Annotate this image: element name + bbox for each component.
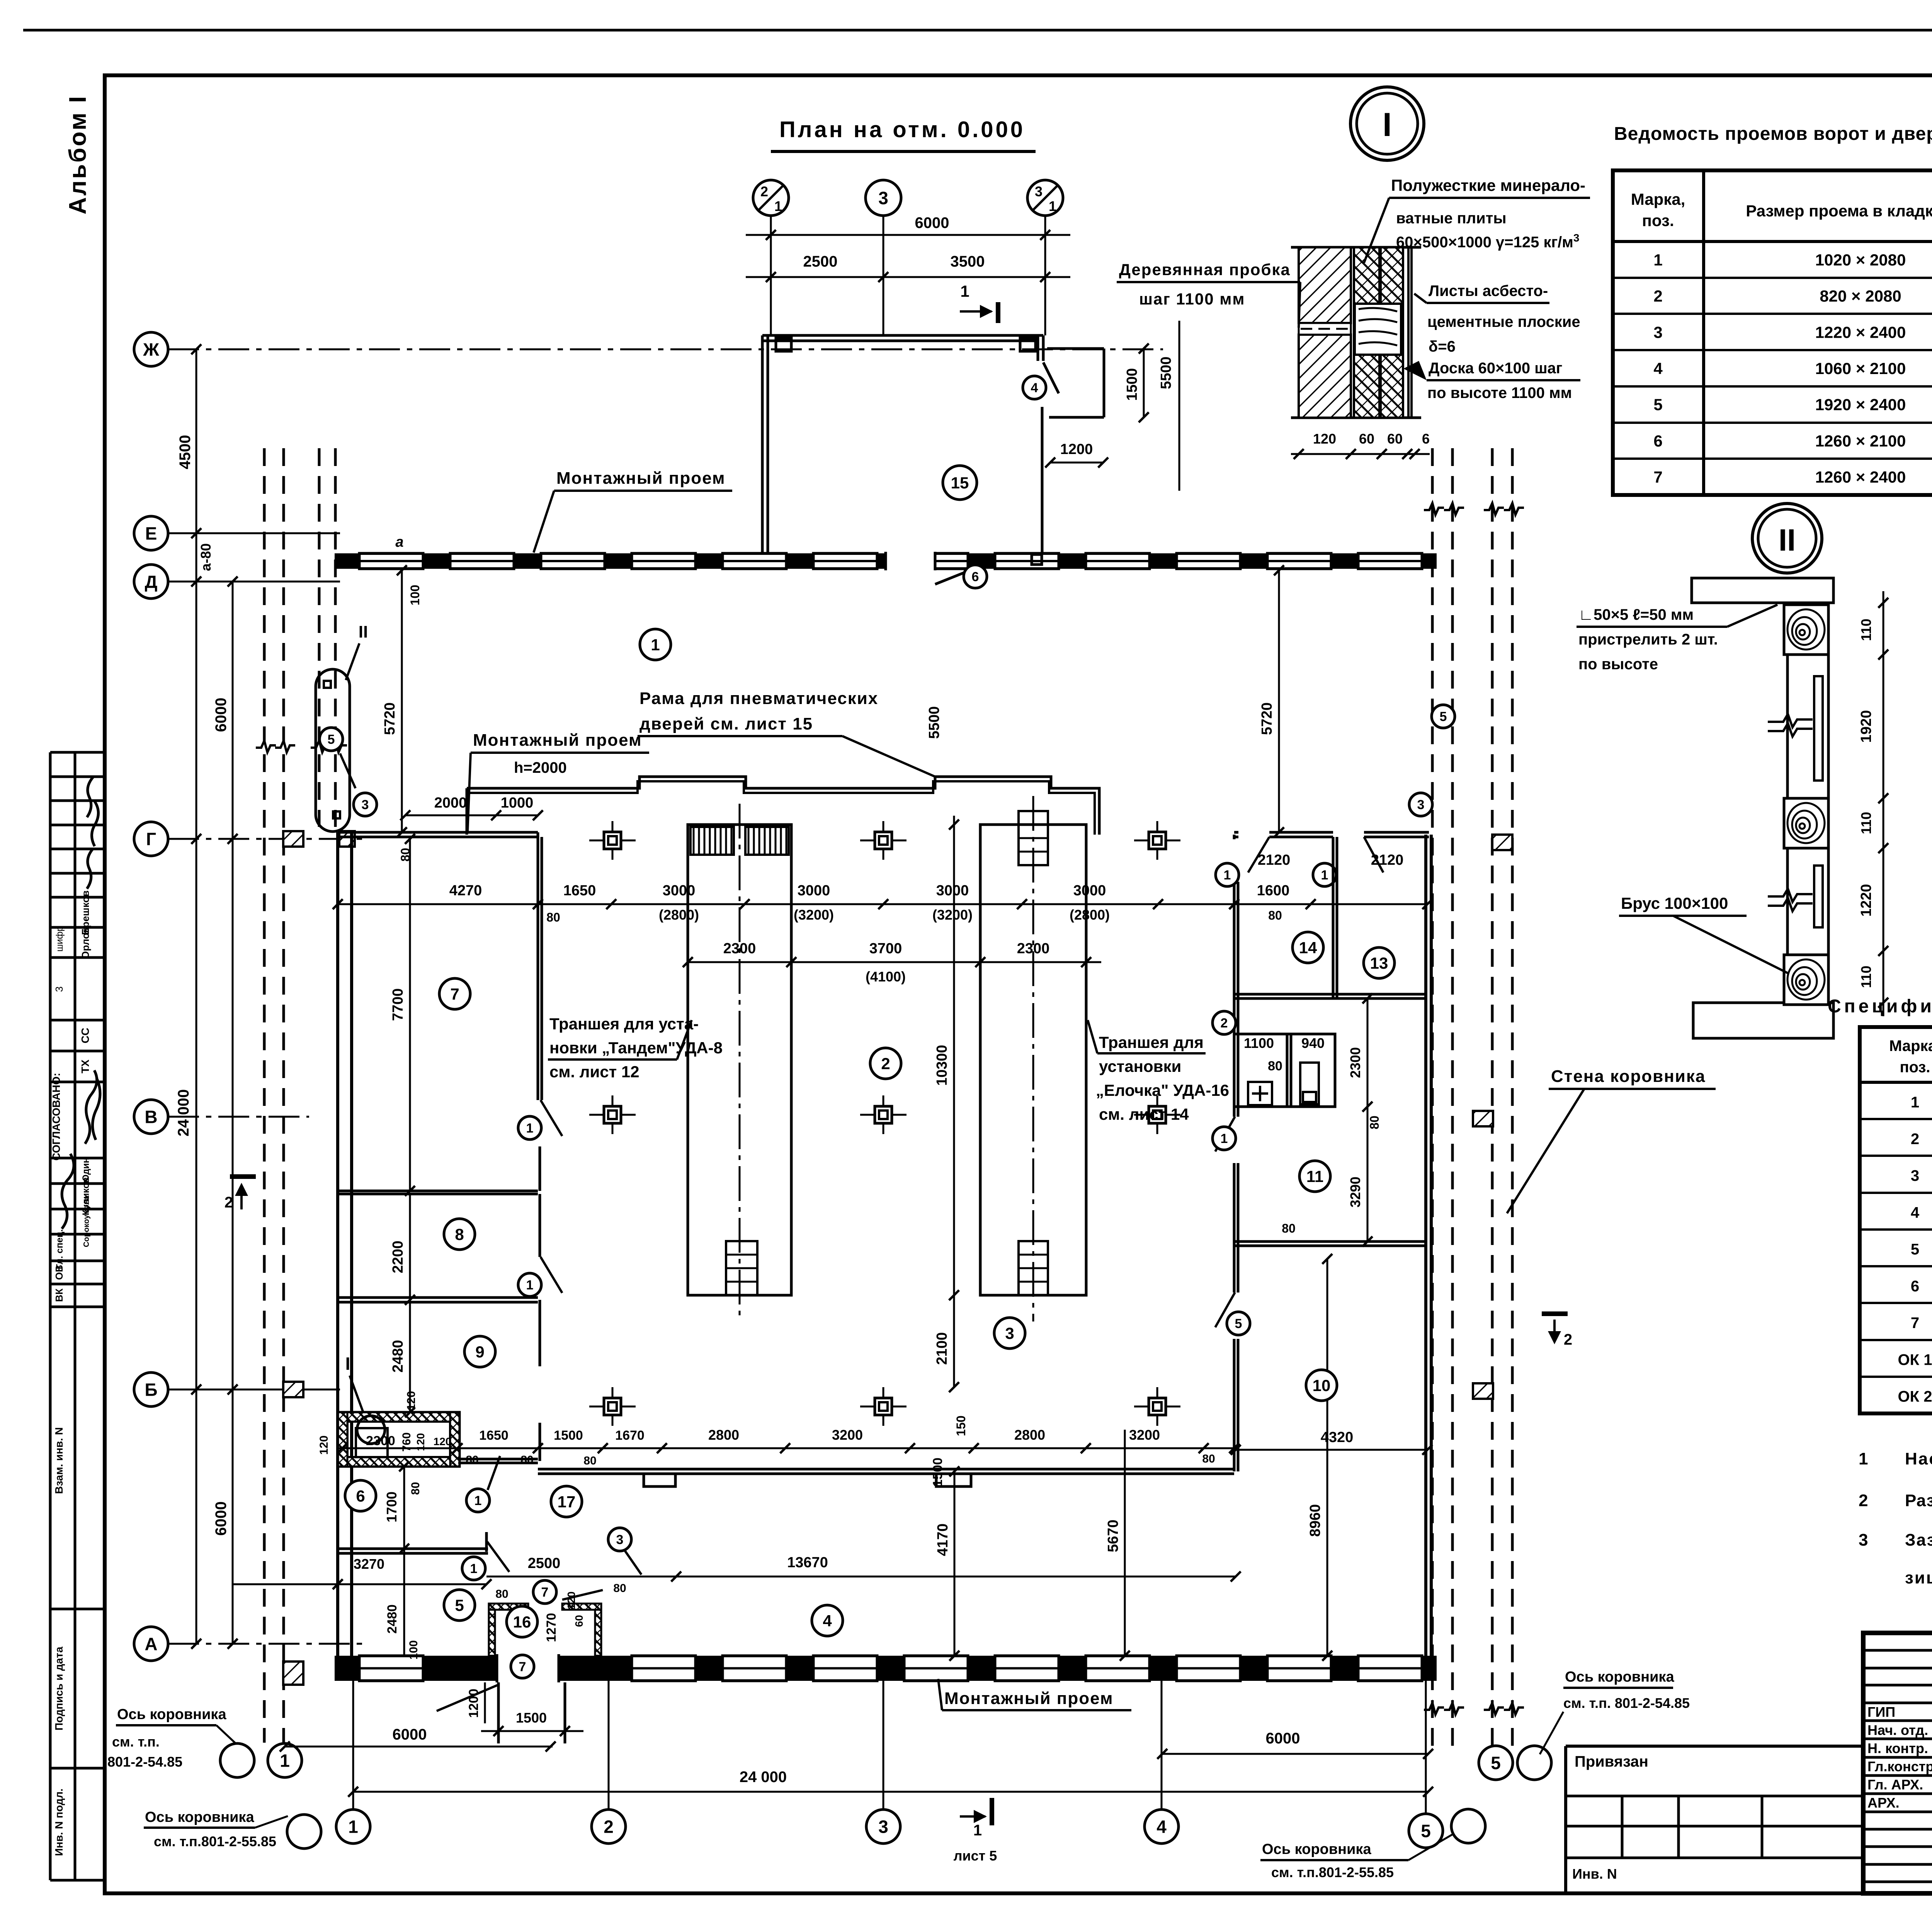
bottom dimension 6000 right <box>1162 1753 1428 1755</box>
trench 1 centerline <box>739 804 741 1321</box>
барн wall (dashed) left pair 2 <box>318 448 321 827</box>
section mark 2 (left) <box>230 1174 256 1179</box>
svg-text:8960: 8960 <box>1307 1504 1323 1537</box>
svg-text:3: 3 <box>1911 1167 1919 1184</box>
svg-text:110: 110 <box>1858 812 1874 834</box>
svg-text:80: 80 <box>583 1454 596 1467</box>
right partition x3198 <box>1233 835 1236 839</box>
svg-text:13: 13 <box>1370 954 1388 972</box>
dims 5720 left / right <box>401 570 403 832</box>
door circle 5 (right) <box>1432 705 1455 728</box>
svg-text:Марка,: Марка, <box>1631 190 1685 208</box>
svg-text:„Елочка" УДА-16: „Елочка" УДА-16 <box>1096 1081 1229 1099</box>
svg-text:Монтажный проем: Монтажный проем <box>556 469 726 488</box>
door circle 1 room 5 <box>487 1542 509 1572</box>
svg-text:Рама для пневматических: Рама для пневматических <box>639 689 878 708</box>
svg-text:Ось коровника: Ось коровника <box>1565 1669 1674 1685</box>
svg-text:1: 1 <box>348 1817 358 1837</box>
svg-text:7: 7 <box>1911 1315 1919 1332</box>
room circle 3 <box>994 1318 1025 1349</box>
svg-text:940: 940 <box>1301 1035 1325 1051</box>
svg-text:3: 3 <box>1005 1324 1014 1342</box>
svg-text:1220 × 2400: 1220 × 2400 <box>1815 323 1906 341</box>
wall y3224 rooms 11/10 <box>1234 1240 1427 1243</box>
detail I dims <box>1291 453 1430 455</box>
svg-text:6000: 6000 <box>393 1726 427 1743</box>
door circle 1 (room 14) <box>1216 863 1239 886</box>
svg-text:4: 4 <box>823 1612 832 1630</box>
axis row Ж circle <box>134 332 168 366</box>
entrance porch below bottom wall <box>497 1682 500 1743</box>
svg-text:2000: 2000 <box>434 795 467 811</box>
svg-text:100: 100 <box>408 585 422 605</box>
svg-text:2120: 2120 <box>1371 852 1404 868</box>
door circle 3 (left) <box>354 793 377 816</box>
svg-text:Ось коровника: Ось коровника <box>117 1706 226 1723</box>
top dimension line 6000 <box>746 234 1070 236</box>
svg-text:2300: 2300 <box>1347 1047 1363 1078</box>
svg-text:6000: 6000 <box>213 698 230 732</box>
svg-text:5: 5 <box>1440 709 1447 724</box>
svg-text:3: 3 <box>1417 798 1425 812</box>
svg-text:4: 4 <box>1031 381 1038 395</box>
main building top wall with windows <box>335 553 1437 569</box>
svg-text:Сорокоумова: Сорокоумова <box>82 1195 91 1247</box>
svg-text:6: 6 <box>1422 431 1430 447</box>
table Спецификация <box>1860 1027 1932 1413</box>
detail II break marks <box>1768 714 1813 727</box>
svg-text:ТХ: ТХ <box>79 1060 91 1073</box>
svg-text:Д: Д <box>145 572 158 592</box>
svg-text:(4100): (4100) <box>866 969 906 985</box>
svg-text:а: а <box>395 534 403 550</box>
svg-text:2500: 2500 <box>528 1555 561 1571</box>
door mark circle 4 <box>1023 376 1046 399</box>
svg-text:1: 1 <box>526 1278 534 1293</box>
svg-text:1: 1 <box>1221 1131 1228 1146</box>
svg-text:80: 80 <box>409 1482 422 1495</box>
svg-text:80: 80 <box>495 1588 508 1600</box>
svg-text:3000: 3000 <box>798 883 830 899</box>
svg-text:План на отм. 0.000: План на отм. 0.000 <box>779 117 1025 142</box>
door gap + leaf room7 <box>539 1146 541 1191</box>
trench 1 (Тандем УДА-8) <box>688 825 791 1295</box>
axis column 5 circle (bottom) <box>1409 1814 1443 1848</box>
svg-text:80: 80 <box>466 1454 478 1466</box>
svg-text:3700: 3700 <box>869 940 902 957</box>
top dimension line 2500 / 3500 <box>746 276 1070 278</box>
svg-text:h=2000: h=2000 <box>514 759 567 776</box>
барн wall (dashed) right pair 1 <box>1431 448 1434 1747</box>
svg-text:Г: Г <box>146 829 156 849</box>
pier at plan SW corner <box>283 1662 303 1685</box>
svg-text:2100: 2100 <box>934 1332 950 1365</box>
svg-text:Монтажный проем: Монтажный проем <box>473 731 642 750</box>
svg-text:1: 1 <box>651 636 660 654</box>
svg-text:Взам. инв. N: Взам. инв. N <box>53 1427 65 1494</box>
trench 1 ladder <box>726 1241 757 1295</box>
svg-text:4: 4 <box>1653 359 1663 378</box>
room circle 16 <box>507 1606 537 1637</box>
wall corner at x1208 <box>466 788 468 835</box>
svg-text:см. т.п.801-2-55.85: см. т.п.801-2-55.85 <box>154 1833 276 1849</box>
svg-text:Деревянная пробка: Деревянная пробка <box>1119 260 1291 279</box>
svg-text:4500: 4500 <box>177 435 194 469</box>
detail II bottom wall block <box>1693 1003 1833 1038</box>
dim 2000/1000 above room7 <box>405 815 538 816</box>
svg-text:1: 1 <box>1321 868 1328 883</box>
annex porch outline <box>1047 347 1104 350</box>
svg-text:820 × 2080: 820 × 2080 <box>1820 287 1901 305</box>
corridor wall y2160 left segment <box>338 831 538 834</box>
svg-text:5: 5 <box>455 1596 464 1614</box>
detail II callout stadium on left wall <box>316 669 350 832</box>
svg-text:5720: 5720 <box>382 702 398 735</box>
svg-text:Зазор между низом панели и: Зазор между низом панели и верхом коробк… <box>1905 1531 1932 1549</box>
left vertical dimension chain 1 <box>196 349 197 1644</box>
inner dim row y3748 <box>337 1447 1234 1449</box>
svg-text:6000: 6000 <box>1266 1730 1300 1747</box>
hatched piers on barn walls <box>283 831 303 847</box>
door circle 5 (left) <box>320 728 343 751</box>
room circle 9 <box>464 1336 495 1367</box>
pier at plan NW corner <box>339 831 355 847</box>
axis column 3 circle (top) <box>866 180 901 216</box>
svg-text:2480: 2480 <box>390 1340 406 1373</box>
wall y3808 room4 north <box>538 1468 1234 1471</box>
svg-text:6000: 6000 <box>213 1502 230 1536</box>
svg-text:60: 60 <box>1387 431 1403 447</box>
svg-text:120: 120 <box>1313 431 1336 447</box>
svg-text:80: 80 <box>520 1454 533 1466</box>
svg-text:3270: 3270 <box>354 1556 384 1572</box>
dim 7700 room 7 <box>409 839 411 1191</box>
svg-text:(3200): (3200) <box>932 907 973 923</box>
door stubs on wall y3808 <box>644 1474 675 1486</box>
trench 2 bottom ladder <box>1019 1241 1048 1295</box>
wall y3364 rooms 8/9 <box>338 1296 538 1299</box>
svg-text:3: 3 <box>878 188 888 208</box>
svg-text:3000: 3000 <box>663 883 696 899</box>
svg-text:δ=6: δ=6 <box>1429 338 1456 355</box>
svg-text:зиции 6, заделать по месту.: зиции 6, заделать по месту. <box>1905 1568 1932 1587</box>
detail II top wall block <box>1692 578 1833 603</box>
svg-text:7: 7 <box>519 1660 526 1674</box>
барн axis circles bottom-left <box>220 1743 254 1777</box>
trench 2 centerline <box>1032 796 1034 1321</box>
svg-text:5: 5 <box>1653 396 1662 414</box>
partition x1392 upper <box>537 832 539 1100</box>
svg-text:6: 6 <box>972 570 979 584</box>
svg-text:80: 80 <box>1367 1116 1381 1129</box>
svg-text:1: 1 <box>1859 1449 1868 1468</box>
svg-text:2: 2 <box>760 184 768 199</box>
dim 2480 room 9 <box>409 1300 411 1412</box>
svg-text:шифр: шифр <box>54 926 65 952</box>
door circle 2 (room 12) <box>1213 1011 1236 1034</box>
wall y3086 rooms 7/8 <box>338 1190 538 1192</box>
left vertical dimension chain 2 <box>232 582 234 1644</box>
svg-text:80: 80 <box>613 1582 626 1595</box>
svg-text:2: 2 <box>1653 287 1662 305</box>
svg-text:ВК: ВК <box>53 1289 65 1302</box>
svg-text:Доска 60×100 шаг: Доска 60×100 шаг <box>1429 360 1562 377</box>
bottom dimension 6000 left <box>285 1746 553 1748</box>
svg-text:ОК 2: ОК 2 <box>1898 1388 1932 1405</box>
svg-text:15: 15 <box>951 474 969 492</box>
svg-text:6: 6 <box>1653 432 1662 450</box>
svg-text:4320: 4320 <box>1321 1429 1354 1446</box>
svg-text:1500: 1500 <box>554 1428 583 1443</box>
svg-text:5: 5 <box>1911 1241 1919 1258</box>
svg-text:2300: 2300 <box>1017 940 1050 957</box>
svg-text:3500: 3500 <box>951 253 985 270</box>
svg-text:лист 5: лист 5 <box>954 1848 997 1864</box>
svg-text:3000: 3000 <box>936 883 969 899</box>
svg-text:см. т.п.: см. т.п. <box>112 1734 160 1750</box>
partition x1392 room 9 <box>539 1302 541 1366</box>
svg-text:80: 80 <box>1268 1059 1282 1073</box>
svg-text:5: 5 <box>1235 1316 1242 1331</box>
svg-text:9: 9 <box>475 1343 484 1361</box>
dim 1200 (porch) <box>1050 462 1103 464</box>
room circle 15 <box>943 466 977 500</box>
room circle 5 <box>444 1590 475 1621</box>
svg-text:дверей см. лист 15: дверей см. лист 15 <box>639 714 813 733</box>
detail II panel wall verticals <box>1786 655 1789 798</box>
left margin stamp boxes <box>49 752 52 1880</box>
annex top wall <box>762 334 1043 337</box>
svg-text:7700: 7700 <box>390 988 406 1021</box>
svg-text:5: 5 <box>1491 1753 1501 1773</box>
break marks right dashed walls <box>1424 503 1444 515</box>
door 4 leaf <box>1043 362 1059 393</box>
room circle 11 <box>1299 1161 1330 1192</box>
svg-text:Гл. спец.: Гл. спец. <box>54 1229 65 1269</box>
svg-text:5500: 5500 <box>1158 357 1174 389</box>
svg-text:1220: 1220 <box>1858 884 1874 917</box>
room circle 6 <box>345 1480 376 1511</box>
door circle 7 upper <box>533 1580 556 1604</box>
room circle 17 <box>551 1486 582 1517</box>
room circle 7 <box>439 978 470 1009</box>
svg-text:6000: 6000 <box>915 214 949 231</box>
axis column 2 circle (bottom) <box>592 1810 626 1844</box>
svg-text:1: 1 <box>474 1493 482 1508</box>
svg-text:3: 3 <box>362 798 369 812</box>
door leafs and circles on x3198 <box>1215 1117 1235 1151</box>
svg-text:3: 3 <box>53 986 65 992</box>
room circle 10 <box>1306 1370 1337 1401</box>
svg-text:80: 80 <box>1282 1221 1296 1235</box>
svg-text:ОВ: ОВ <box>53 1265 65 1280</box>
axis column 3 circle (bottom) <box>866 1810 900 1844</box>
svg-text:I: I <box>1383 106 1392 143</box>
door jamb stub x1259 <box>485 1532 488 1552</box>
trench 2 (Елочка УДА-16) <box>980 825 1086 1295</box>
wall y2584 under rooms 14/13 <box>1234 993 1427 996</box>
svg-text:1200: 1200 <box>1060 441 1093 457</box>
door mark circle 1 (corridor west) <box>466 1489 490 1512</box>
wall y4014 rooms 6/5 divider <box>337 1548 488 1550</box>
svg-text:1: 1 <box>1224 868 1231 883</box>
svg-text:I: I <box>345 1354 350 1374</box>
svg-text:2: 2 <box>1911 1131 1919 1148</box>
svg-text:1920: 1920 <box>1858 710 1874 743</box>
svg-text:1000: 1000 <box>501 795 534 811</box>
svg-text:СОГЛАСОВАНО:: СОГЛАСОВАНО: <box>50 1073 62 1160</box>
axis column 2/1 circle <box>753 180 789 216</box>
svg-text:Ж: Ж <box>143 340 159 360</box>
svg-text:2: 2 <box>1564 1331 1572 1348</box>
svg-text:24 000: 24 000 <box>740 1769 787 1786</box>
барн wall (dashed) right pair 2 <box>1491 448 1494 1747</box>
svg-text:1270: 1270 <box>544 1613 559 1642</box>
svg-text:Подпись и дата: Подпись и дата <box>53 1646 65 1730</box>
svg-text:см. лист 14: см. лист 14 <box>1099 1105 1189 1123</box>
svg-text:Е: Е <box>145 524 157 544</box>
svg-text:см. лист 12: см. лист 12 <box>549 1063 639 1081</box>
svg-text:60: 60 <box>573 1615 585 1627</box>
svg-text:Орлов: Орлов <box>80 927 91 959</box>
svg-text:1920 × 2400: 1920 × 2400 <box>1815 396 1906 414</box>
dim 2200 room 8 <box>409 1194 411 1300</box>
svg-text:II: II <box>1779 523 1796 557</box>
axis row А circle <box>134 1627 168 1661</box>
axis row Г circle <box>134 822 168 856</box>
svg-text:6: 6 <box>356 1487 365 1505</box>
trench 2 top ladder <box>1019 811 1048 865</box>
svg-text:120: 120 <box>434 1435 452 1447</box>
room circle 13 <box>1364 947 1395 978</box>
axis column 3/1 circle <box>1027 180 1063 216</box>
axis column 1 circle (bottom) <box>336 1810 370 1844</box>
toilet room 12 <box>1234 1034 1335 1107</box>
svg-text:8: 8 <box>455 1225 464 1243</box>
svg-text:100: 100 <box>407 1640 420 1660</box>
svg-text:10300: 10300 <box>934 1045 950 1086</box>
svg-text:Ось коровника: Ось коровника <box>1262 1841 1371 1857</box>
svg-text:(2800): (2800) <box>659 907 699 923</box>
annex door jamb stubs <box>776 338 791 351</box>
svg-text:3290: 3290 <box>1347 1177 1363 1207</box>
svg-text:Брус 100×100: Брус 100×100 <box>1621 894 1728 912</box>
svg-text:1650: 1650 <box>563 883 596 899</box>
svg-text:Настоящий лист смотреть совме: Настоящий лист смотреть совместно с лист… <box>1905 1449 1932 1468</box>
барн axis circle bottom-right lower empty <box>1451 1809 1485 1843</box>
dim row y2317: 4270 1650 3000 ... <box>338 903 1427 905</box>
svg-text:5: 5 <box>1421 1821 1431 1841</box>
svg-text:1020 × 2080: 1020 × 2080 <box>1815 251 1906 269</box>
svg-text:7: 7 <box>1653 468 1662 486</box>
sheet top trim line <box>23 29 1932 32</box>
svg-text:1: 1 <box>470 1561 478 1576</box>
svg-text:5670: 5670 <box>1105 1520 1121 1553</box>
svg-text:В: В <box>145 1107 157 1127</box>
svg-text:Гл.констр: Гл.констр <box>1867 1759 1932 1774</box>
svg-text:1: 1 <box>774 198 782 214</box>
svg-text:по высоте: по высоте <box>1578 656 1658 673</box>
svg-text:4: 4 <box>1156 1817 1167 1837</box>
svg-text:1: 1 <box>526 1121 534 1136</box>
svg-text:Ведомость проемов ворот и дв: Ведомость проемов ворот и дверей <box>1614 124 1932 144</box>
svg-text:10: 10 <box>1313 1376 1331 1395</box>
svg-text:7: 7 <box>450 985 459 1003</box>
column marks grid <box>589 821 636 860</box>
partition x1392 rooms 8 area <box>539 1194 541 1257</box>
svg-text:Марка,: Марка, <box>1889 1037 1932 1054</box>
svg-text:по высоте 1100 мм: по высоте 1100 мм <box>1427 384 1572 401</box>
svg-text:110: 110 <box>1858 619 1874 641</box>
svg-text:120: 120 <box>405 1391 418 1410</box>
svg-text:пристрелить 2 шт.: пристрелить 2 шт. <box>1578 631 1718 648</box>
detail II dimension chain <box>1883 591 1884 1016</box>
table Ведомость проемов <box>1613 170 1932 495</box>
svg-text:5720: 5720 <box>1259 702 1275 735</box>
room circle 2 <box>870 1048 901 1079</box>
dim 1700 room 6 <box>403 1466 405 1549</box>
svg-text:Траншея для уста-: Траншея для уста- <box>549 1015 699 1033</box>
svg-text:2500: 2500 <box>803 253 838 270</box>
svg-text:110: 110 <box>1858 966 1874 988</box>
svg-text:Спецификация элементов зап: Спецификация элементов заполнения проемо… <box>1828 996 1932 1017</box>
svg-text:80: 80 <box>546 910 560 924</box>
svg-text:Б: Б <box>145 1380 157 1400</box>
main building left wall <box>336 832 339 1656</box>
axis row Д circle <box>134 565 168 599</box>
svg-text:2300: 2300 <box>723 940 756 957</box>
барн axis circles bottom-right upper pair <box>1479 1746 1513 1780</box>
margin signatures middle <box>85 1070 97 1144</box>
svg-text:1650: 1650 <box>479 1428 509 1443</box>
svg-text:801-2-54.85: 801-2-54.85 <box>107 1754 182 1770</box>
svg-text:120: 120 <box>565 1592 577 1610</box>
dim 3270/2500 row <box>233 1583 486 1585</box>
svg-text:1: 1 <box>1653 251 1662 269</box>
svg-text:шаг 1100 мм: шаг 1100 мм <box>1139 290 1245 308</box>
svg-text:2800: 2800 <box>708 1427 739 1443</box>
svg-text:Стена коровника: Стена коровника <box>1551 1067 1706 1086</box>
svg-text:Монтажный проем: Монтажный проем <box>944 1689 1114 1708</box>
svg-text:Размер проема в кладке, мм: Размер проема в кладке, мм <box>1746 202 1932 220</box>
svg-text:7: 7 <box>541 1585 549 1600</box>
svg-text:1600: 1600 <box>1257 883 1290 899</box>
svg-text:Инв. N: Инв. N <box>1572 1866 1617 1882</box>
svg-text:6: 6 <box>1911 1278 1919 1295</box>
wall y3786 san to partition <box>458 1458 538 1461</box>
svg-text:установки: установки <box>1099 1057 1181 1075</box>
svg-text:АРХ.: АРХ. <box>1867 1795 1900 1811</box>
door circle 1 (room 13) <box>1313 863 1336 886</box>
svg-text:3000: 3000 <box>1073 883 1106 899</box>
axis row Б circle <box>134 1372 168 1406</box>
svg-text:11: 11 <box>1306 1167 1323 1185</box>
margin signatures top <box>87 777 93 817</box>
svg-text:II: II <box>359 622 368 641</box>
svg-text:17: 17 <box>558 1493 576 1511</box>
door circle 3 (corridor) <box>608 1528 631 1551</box>
svg-text:2300: 2300 <box>366 1434 395 1448</box>
svg-text:1060 × 2100: 1060 × 2100 <box>1815 359 1906 378</box>
title block (штамп) <box>1863 1633 1932 1893</box>
svg-text:1260 × 2400: 1260 × 2400 <box>1815 468 1906 486</box>
axis column 4 circle (bottom) <box>1145 1810 1179 1844</box>
барн wall (dashed) left pair 1 <box>263 448 266 1743</box>
door 6 opening in top wall <box>886 552 935 570</box>
svg-text:2: 2 <box>1859 1491 1868 1510</box>
svg-text:1: 1 <box>1049 198 1056 214</box>
break marks left dashed walls <box>256 741 276 752</box>
